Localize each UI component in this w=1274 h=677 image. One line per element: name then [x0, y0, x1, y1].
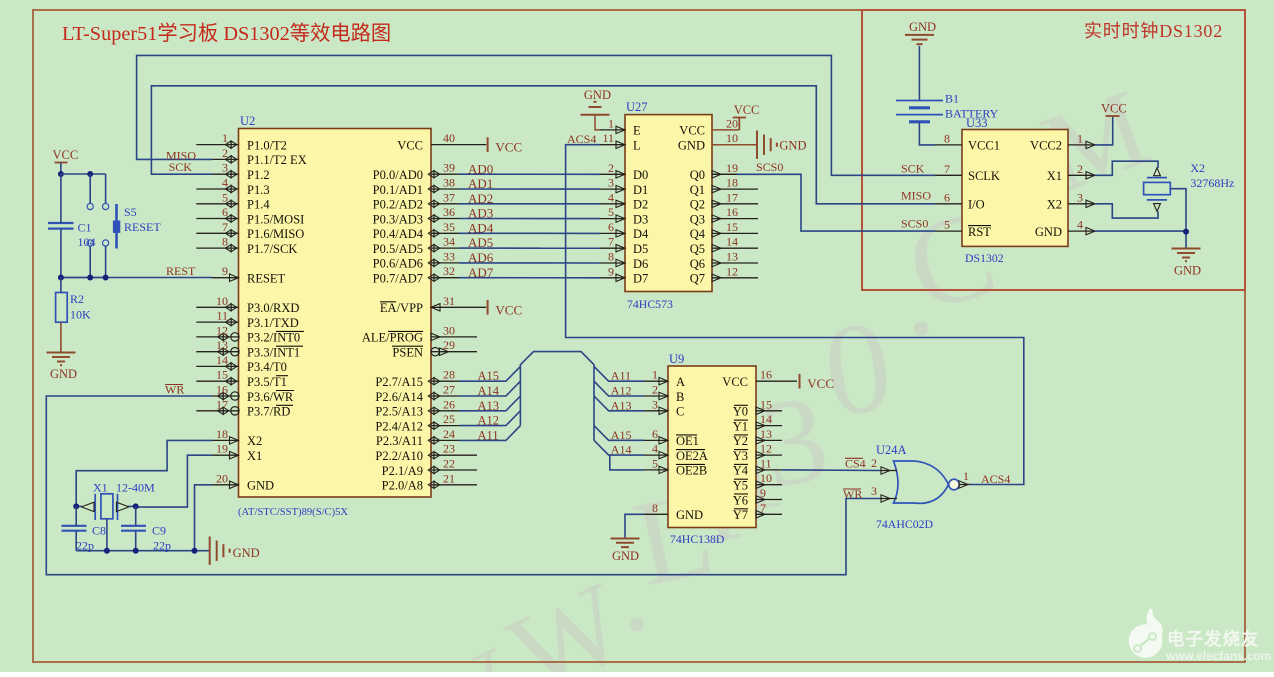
U2 pin 20 GND [212, 484, 239, 486]
svg-text:OE2A: OE2A [676, 449, 708, 463]
U2 pin 18 X2 [212, 439, 239, 441]
U9 pin 7 Y7 [756, 513, 782, 515]
U9 pin 9 Y6 [756, 499, 782, 501]
U2 pin 39 P0.0/AD0 [431, 173, 459, 175]
svg-text:REST: REST [166, 264, 196, 278]
ground sideways at rail [209, 537, 211, 565]
U9 pin 14 Y1 [756, 425, 782, 427]
svg-text:16: 16 [760, 368, 772, 382]
svg-text:7: 7 [222, 220, 228, 234]
svg-text:17: 17 [726, 190, 738, 204]
svg-text:37: 37 [443, 190, 455, 204]
U2 pin 17 P3.7/RD [196, 410, 238, 412]
svg-text:14: 14 [216, 353, 228, 367]
svg-text:12: 12 [726, 264, 738, 278]
svg-text:ACS4: ACS4 [981, 472, 1010, 486]
svg-text:5: 5 [608, 205, 614, 219]
bus exits right [594, 366, 644, 381]
svg-text:74HC573: 74HC573 [627, 297, 673, 311]
U24A pin 1 output [959, 484, 970, 486]
svg-text:P3.6/WR: P3.6/WR [247, 390, 294, 404]
svg-text:P0.0/AD0: P0.0/AD0 [373, 168, 423, 182]
U33 pin 4 GND [1068, 230, 1095, 232]
U33 pin 8 VCC1 [935, 144, 962, 146]
U27 pin 18 Q1 [712, 188, 758, 190]
svg-text:AD6: AD6 [468, 250, 494, 265]
svg-text:Y0: Y0 [733, 405, 748, 419]
svg-text:D7: D7 [633, 272, 648, 286]
U27 pin 19 Q0 [712, 173, 758, 175]
wire REST net [61, 277, 212, 279]
svg-text:AD7: AD7 [468, 265, 494, 280]
svg-text:2: 2 [1077, 162, 1083, 176]
U2 pin 36 P0.3/AD3 [431, 218, 459, 220]
U33 pin 7 SCLK [935, 174, 962, 176]
svg-text:16: 16 [216, 383, 228, 397]
node VCC-C1 [58, 171, 64, 177]
svg-text:P3.4/T0: P3.4/T0 [247, 360, 287, 374]
U2 pin 38 P0.1/AD1 [431, 188, 459, 190]
svg-text:1: 1 [963, 469, 969, 483]
wire battery to U33 pin8 [919, 122, 935, 145]
svg-text:14: 14 [760, 412, 772, 426]
U9 pin 3 C [644, 410, 668, 412]
svg-text:C9: C9 [152, 524, 166, 538]
svg-text:A11: A11 [478, 428, 499, 442]
U27 pin 7 D5 [600, 247, 625, 249]
svg-text:33: 33 [443, 249, 455, 263]
wire X1 net U2.19 to crystal [136, 455, 212, 507]
svg-text:32: 32 [443, 264, 455, 278]
svg-text:19: 19 [216, 442, 228, 456]
svg-text:26: 26 [443, 397, 455, 411]
wire U33 GND pin4 [1095, 231, 1186, 248]
U2 pin 2 P1.1/T2 EX [212, 158, 239, 160]
svg-text:U27: U27 [626, 100, 648, 114]
svg-text:P1.1/T2 EX: P1.1/T2 EX [247, 153, 307, 167]
svg-text:D5: D5 [633, 242, 648, 256]
U27 pin 8 D6 [600, 262, 625, 264]
U9 pin16 VCC hookup [756, 380, 797, 382]
svg-text:电子发烧友: 电子发烧友 [1167, 629, 1260, 649]
svg-text:(AT/STC/SST)89(S/C)5X: (AT/STC/SST)89(S/C)5X [238, 507, 348, 518]
U2 pin 40 VCC [431, 144, 459, 146]
svg-text:2: 2 [608, 161, 614, 175]
U2 pin 5 P1.4 [196, 203, 238, 205]
svg-text:VCC: VCC [807, 376, 834, 391]
svg-text:32768Hz: 32768Hz [1190, 176, 1234, 190]
svg-text:2: 2 [871, 456, 877, 470]
svg-text:1: 1 [1077, 131, 1083, 145]
U33 pin 2 X1 [1068, 174, 1095, 176]
svg-text:VCC: VCC [722, 375, 748, 389]
svg-text:Q1: Q1 [690, 183, 705, 197]
svg-text:SCLK: SCLK [968, 169, 1000, 183]
svg-text:A: A [676, 375, 685, 389]
wire SCS0 net U27.19 to U33.5 [737, 174, 935, 231]
svg-text:A14: A14 [611, 443, 632, 457]
wire U33 X1 to crystal [1095, 161, 1158, 175]
U9 pin 12 Y3 [756, 454, 782, 456]
U2 pin31 VCC hookup [459, 306, 486, 308]
ground below R2 [47, 352, 76, 354]
svg-text:A15: A15 [478, 369, 500, 383]
U24A pin 2 input [880, 470, 897, 472]
svg-text:A15: A15 [611, 428, 632, 442]
svg-text:Y7: Y7 [733, 508, 748, 522]
crystal X1 [101, 494, 113, 519]
U33 pin1 VCC hookup [1095, 117, 1113, 145]
U2 pin 3 P1.2 [212, 173, 239, 175]
svg-text:Q0: Q0 [690, 168, 705, 182]
switch S5 contacts [89, 174, 91, 203]
svg-text:13: 13 [726, 250, 738, 264]
node crystal right [133, 503, 139, 509]
svg-text:14: 14 [726, 235, 738, 249]
svg-text:1: 1 [222, 131, 228, 145]
svg-text:VCC2: VCC2 [1030, 139, 1062, 153]
svg-text:12: 12 [760, 442, 772, 456]
battery B1 [896, 100, 943, 102]
svg-text:Q3: Q3 [690, 212, 705, 226]
svg-text:S5: S5 [124, 205, 137, 219]
svg-text:34: 34 [443, 235, 455, 249]
U27 pin 11 L [600, 144, 625, 146]
U27 pin20 VCC hookup [712, 129, 739, 131]
svg-text:P0.5/AD5: P0.5/AD5 [373, 242, 423, 256]
svg-text:GND: GND [50, 367, 77, 381]
svg-text:P2.3/A11: P2.3/A11 [376, 434, 423, 448]
U2 pin 19 X1 [212, 454, 239, 456]
svg-text:VCC: VCC [495, 302, 522, 317]
crystal X2 [1144, 182, 1171, 194]
svg-text:EA/VPP: EA/VPP [380, 301, 423, 315]
reset rail [61, 277, 106, 279]
wire U2.20 GND to rail [195, 485, 213, 551]
U27 pin 16 Q3 [712, 218, 758, 220]
svg-text:P0.3/AD3: P0.3/AD3 [373, 212, 423, 226]
resistor R2 [56, 293, 68, 323]
svg-text:Q7: Q7 [690, 272, 705, 286]
svg-text:BATTERY: BATTERY [945, 107, 999, 121]
svg-text:U2: U2 [240, 114, 255, 128]
svg-text:C8: C8 [92, 524, 106, 538]
bus hump [520, 352, 594, 441]
svg-text:P0.7/AD7: P0.7/AD7 [373, 272, 423, 286]
decoder U9 body [668, 366, 756, 528]
svg-text:12: 12 [216, 323, 228, 337]
U2 pin 24 P2.3/A11 [431, 439, 459, 441]
svg-text:RESET: RESET [124, 220, 161, 234]
svg-text:3: 3 [222, 161, 228, 175]
svg-text:DS1302: DS1302 [965, 251, 1004, 265]
U33 pin 1 VCC2 [1068, 144, 1095, 146]
svg-text:8: 8 [222, 235, 228, 249]
svg-text:Q2: Q2 [690, 198, 705, 212]
U2 pin 9 RESET [212, 277, 239, 279]
U2 pin 11 P3.1/TXD [196, 321, 238, 323]
U27 pin 3 D1 [600, 188, 625, 190]
svg-text:7: 7 [944, 162, 950, 176]
svg-text:D6: D6 [633, 257, 648, 271]
svg-text:27: 27 [443, 383, 455, 397]
wire WR net U2.16 to U24A.3 [46, 396, 880, 575]
svg-text:22: 22 [443, 457, 455, 471]
svg-text:24: 24 [443, 427, 455, 441]
svg-text:74AHC02D: 74AHC02D [876, 517, 934, 531]
svg-text:P1.0/T2: P1.0/T2 [247, 138, 287, 152]
U27 pin10 GND hookup [712, 144, 757, 146]
svg-text:D1: D1 [633, 183, 648, 197]
svg-text:6: 6 [944, 190, 950, 204]
svg-text:20: 20 [216, 471, 228, 485]
U2 pin 28 P2.7/A15 [431, 380, 459, 382]
svg-text:I/O: I/O [968, 198, 985, 212]
svg-text:PSEN: PSEN [392, 346, 423, 360]
svg-text:3: 3 [871, 484, 877, 498]
U9 pin 1 A [644, 380, 668, 382]
svg-text:P2.4/A12: P2.4/A12 [375, 419, 423, 433]
svg-text:2: 2 [652, 383, 658, 397]
svg-text:VCC: VCC [679, 124, 705, 138]
svg-text:P3.0/RXD: P3.0/RXD [247, 301, 299, 315]
svg-text:OE2B: OE2B [676, 464, 707, 478]
svg-text:Y2: Y2 [733, 434, 748, 448]
svg-text:VCC: VCC [734, 103, 760, 117]
svg-text:X2: X2 [1190, 161, 1205, 175]
U2 pin 1 P1.0/T2 [196, 144, 238, 146]
svg-text:P1.5/MOSI: P1.5/MOSI [247, 212, 304, 226]
wire gnd to battery [918, 46, 920, 101]
svg-text:20: 20 [726, 116, 738, 130]
svg-text:4: 4 [222, 176, 228, 190]
U2 pin 22 P2.1/A9 [431, 469, 477, 471]
U2 pin 8 P1.7/SCK [196, 247, 238, 249]
capacitor C8 [62, 525, 87, 527]
svg-text:12-40M: 12-40M [116, 481, 155, 495]
U2 pin 35 P0.4/AD4 [431, 232, 459, 234]
svg-text:www.elecfans.com: www.elecfans.com [1165, 649, 1271, 663]
svg-text:4: 4 [1077, 218, 1083, 232]
svg-text:16: 16 [726, 205, 738, 219]
U27 pin 2 D0 [600, 173, 625, 175]
svg-text:P3.2/INT0: P3.2/INT0 [247, 331, 300, 345]
U2 pin 12 P3.2/INT0 [196, 336, 238, 338]
svg-text:AD0: AD0 [468, 161, 493, 176]
U2 pin 25 P2.4/A12 [431, 425, 459, 427]
svg-text:4: 4 [608, 190, 614, 204]
svg-text:VCC: VCC [495, 140, 522, 155]
U24A pin 3 input [880, 498, 897, 500]
U9 pin 2 B [644, 395, 668, 397]
svg-text:OE1: OE1 [676, 434, 699, 448]
svg-text:5: 5 [222, 190, 228, 204]
svg-text:Y1: Y1 [733, 419, 748, 433]
wire MISO net U2.2 to U33.7 [137, 55, 935, 175]
DS1302 section box [862, 10, 1245, 290]
svg-text:C1: C1 [78, 221, 92, 235]
U27 pin 14 Q5 [712, 247, 758, 249]
wire ACS4 net U24A.1 to U27.11 [566, 145, 1024, 485]
svg-text:19: 19 [726, 161, 738, 175]
svg-text:13: 13 [216, 338, 228, 352]
U9 pin 8 GND [644, 513, 668, 515]
svg-text:ALE/PROG: ALE/PROG [362, 331, 423, 345]
U27 pin 6 D4 [600, 232, 625, 234]
svg-text:B: B [676, 390, 684, 404]
U2 pin 14 P3.4/T0 [196, 365, 238, 367]
svg-text:P2.7/A15: P2.7/A15 [375, 375, 423, 389]
U9 pin 15 Y0 [756, 410, 782, 412]
U2 pin 37 P0.2/AD2 [431, 203, 459, 205]
U9 pin 13 Y2 [756, 439, 782, 441]
U27 pin 17 Q2 [712, 203, 758, 205]
U9 pin 6 OE1 [644, 439, 668, 441]
rtc U33 body [962, 130, 1068, 247]
svg-text:6: 6 [608, 220, 614, 234]
node gnd junction [1183, 229, 1189, 235]
svg-text:P0.6/AD6: P0.6/AD6 [373, 257, 423, 271]
U2 pin 31 EA/VPP [431, 306, 459, 308]
capacitor C1 [48, 222, 74, 224]
svg-text:29: 29 [443, 338, 455, 352]
U27 pin 1 E [600, 129, 625, 131]
svg-text:B1: B1 [945, 92, 959, 106]
switch S5 actuator [115, 204, 118, 249]
wire OE2B jog [610, 455, 644, 470]
wire X2 net U2.18 to crystal [76, 440, 212, 506]
svg-text:P1.3: P1.3 [247, 183, 270, 197]
svg-text:31: 31 [443, 294, 455, 308]
svg-text:C: C [676, 405, 684, 419]
svg-text:MISO: MISO [901, 189, 931, 203]
svg-text:9: 9 [222, 264, 228, 278]
svg-text:39: 39 [443, 161, 455, 175]
U27 pin 9 D7 [600, 277, 625, 279]
svg-text:A13: A13 [611, 398, 632, 412]
U33 pin 5 RST [935, 230, 962, 232]
svg-text:P2.5/A13: P2.5/A13 [375, 405, 423, 419]
svg-text:A11: A11 [611, 369, 631, 383]
svg-text:GND: GND [1035, 225, 1062, 239]
svg-text:P3.7/RD: P3.7/RD [247, 405, 290, 419]
svg-text:11: 11 [602, 131, 614, 145]
U2 pin 10 P3.0/RXD [196, 306, 238, 308]
svg-text:P3.5/T1: P3.5/T1 [247, 375, 287, 389]
svg-text:P1.7/SCK: P1.7/SCK [247, 242, 297, 256]
svg-text:Q6: Q6 [690, 257, 705, 271]
wire U33 X2 to crystal [1095, 204, 1158, 218]
svg-text:D2: D2 [633, 198, 648, 212]
svg-text:Y5: Y5 [733, 479, 748, 493]
svg-text:A14: A14 [478, 384, 500, 398]
svg-text:6: 6 [652, 427, 658, 441]
svg-text:18: 18 [216, 427, 228, 441]
svg-text:10: 10 [216, 294, 228, 308]
svg-text:GND: GND [247, 479, 274, 493]
wire CS4 net U9.11 to U24A.2 [782, 469, 880, 472]
svg-text:2: 2 [222, 146, 228, 160]
svg-text:SCK: SCK [169, 160, 193, 174]
svg-text:GND: GND [612, 549, 639, 563]
svg-text:AD3: AD3 [468, 206, 493, 221]
svg-text:P2.0/A8: P2.0/A8 [382, 479, 423, 493]
U2 pin 23 P2.2/A10 [431, 454, 477, 456]
svg-text:P1.6/MISO: P1.6/MISO [247, 227, 304, 241]
svg-text:SCS0: SCS0 [756, 160, 783, 174]
svg-text:7: 7 [608, 235, 614, 249]
svg-text:AD5: AD5 [468, 235, 493, 250]
svg-text:AD2: AD2 [468, 191, 493, 206]
svg-text:15: 15 [760, 397, 772, 411]
svg-text:P1.2: P1.2 [247, 168, 270, 182]
svg-text:10K: 10K [70, 308, 91, 322]
elecfans logo watermark [1129, 608, 1271, 663]
svg-text:GND: GND [584, 88, 611, 102]
svg-text:17: 17 [216, 397, 228, 411]
svg-text:实时时钟DS1302: 实时时钟DS1302 [1084, 21, 1223, 41]
U9 pin 5 OE2B [644, 469, 668, 471]
U9 pin8 ground [625, 514, 644, 538]
svg-text:3: 3 [652, 397, 658, 411]
svg-text:Y6: Y6 [733, 493, 748, 507]
crystal case ground stub [106, 519, 108, 551]
U2 pin 7 P1.6/MISO [196, 232, 238, 234]
svg-text:A13: A13 [478, 399, 500, 413]
svg-text:A12: A12 [611, 384, 632, 398]
wire A-bus U2 P2 to U9 with bus hump [459, 366, 520, 381]
capacitor C9 [121, 525, 146, 527]
svg-text:AD1: AD1 [468, 176, 493, 191]
ground rail bottom [76, 550, 210, 552]
svg-text:8: 8 [608, 250, 614, 264]
svg-text:D3: D3 [633, 212, 648, 226]
svg-text:P0.2/AD2: P0.2/AD2 [373, 198, 423, 212]
svg-text:LT-Super51学习板 DS1302等效电路图: LT-Super51学习板 DS1302等效电路图 [62, 22, 391, 45]
svg-text:AD4: AD4 [468, 220, 494, 235]
node crystal left [73, 503, 79, 509]
U2 pin 32 P0.7/AD7 [431, 277, 459, 279]
svg-text:18: 18 [726, 176, 738, 190]
svg-text:11: 11 [216, 309, 228, 323]
svg-text:D4: D4 [633, 227, 649, 241]
U33 pin 6 I/O [935, 203, 962, 205]
svg-text:A12: A12 [478, 414, 500, 428]
svg-text:5: 5 [944, 218, 950, 232]
svg-text:P1.4: P1.4 [247, 198, 270, 212]
U2 pin 27 P2.6/A14 [431, 395, 459, 397]
svg-text:P2.2/A10: P2.2/A10 [375, 449, 423, 463]
svg-text:P3.3/INT1: P3.3/INT1 [247, 346, 300, 360]
svg-text:10: 10 [726, 131, 738, 145]
mcu U2 body [239, 129, 432, 498]
svg-text:X1: X1 [247, 449, 262, 463]
svg-text:E: E [633, 124, 641, 138]
svg-text:Y4: Y4 [733, 464, 749, 478]
svg-text:3: 3 [608, 176, 614, 190]
svg-text:6: 6 [222, 205, 228, 219]
svg-text:RST: RST [968, 225, 991, 239]
svg-text:X2: X2 [247, 434, 262, 448]
svg-text:RESET: RESET [247, 272, 286, 286]
U2 pin 15 P3.5/T1 [196, 380, 238, 382]
svg-text:Q4: Q4 [690, 227, 706, 241]
U2 pin 30 ALE/PROG [431, 336, 477, 338]
wire VCC rail to switch [61, 173, 106, 175]
U9 pin 11 Y4 [756, 469, 782, 471]
svg-text:Y3: Y3 [733, 449, 748, 463]
svg-text:GND: GND [676, 508, 703, 522]
